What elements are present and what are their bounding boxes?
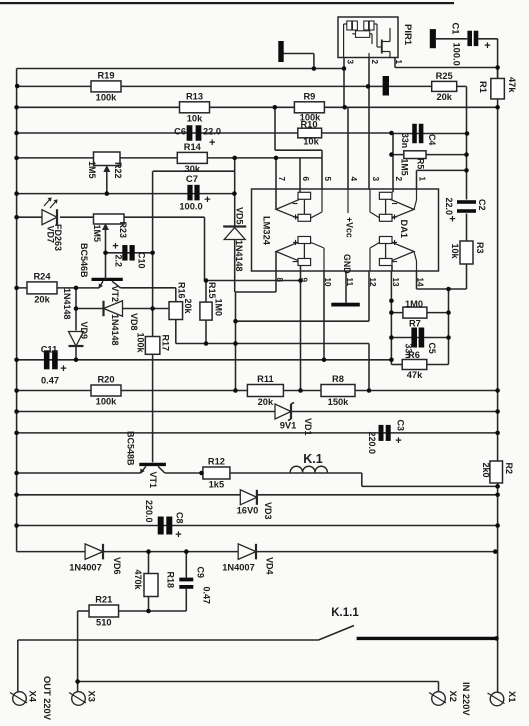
svg-text:22.0: 22.0 — [444, 198, 454, 216]
svg-text:100.0: 100.0 — [452, 43, 462, 66]
svg-text:R9: R9 — [303, 91, 315, 101]
svg-text:20k: 20k — [183, 299, 193, 315]
svg-text:1N4007: 1N4007 — [222, 563, 255, 573]
svg-text:PIR1: PIR1 — [402, 24, 413, 46]
svg-text:R23: R23 — [118, 222, 128, 239]
svg-text:150k: 150k — [328, 397, 350, 407]
svg-text:C6: C6 — [174, 127, 186, 137]
svg-text:+: + — [395, 435, 401, 447]
svg-text:R18: R18 — [166, 572, 176, 589]
svg-text:16V0: 16V0 — [237, 506, 259, 516]
svg-text:20k: 20k — [34, 294, 50, 304]
svg-text:OUT 220V: OUT 220V — [42, 676, 52, 721]
svg-text:100k: 100k — [135, 333, 145, 354]
svg-text:C9: C9 — [196, 567, 206, 579]
svg-text:47k: 47k — [407, 370, 423, 380]
svg-text:+: + — [392, 238, 398, 249]
svg-text:1M5: 1M5 — [400, 159, 410, 176]
svg-text:R15: R15 — [207, 282, 217, 299]
svg-text:22.0: 22.0 — [203, 127, 221, 137]
svg-text:R25: R25 — [436, 71, 453, 81]
svg-text:C11: C11 — [41, 345, 58, 355]
svg-text:R5: R5 — [416, 158, 426, 169]
svg-text:8: 8 — [275, 278, 284, 283]
svg-text:C1: C1 — [451, 23, 461, 35]
svg-text:11: 11 — [345, 278, 354, 287]
svg-text:1N4148: 1N4148 — [110, 314, 120, 346]
svg-text:R13: R13 — [186, 91, 203, 101]
svg-text:R12: R12 — [208, 457, 225, 467]
svg-text:K.1.1: K.1.1 — [331, 607, 359, 619]
svg-text:1N4148: 1N4148 — [234, 240, 244, 272]
svg-text:R19: R19 — [97, 70, 114, 80]
svg-text:+: + — [60, 363, 66, 375]
svg-text:VD4: VD4 — [265, 557, 275, 575]
svg-text:10: 10 — [323, 278, 332, 288]
svg-text:R3: R3 — [475, 242, 485, 254]
svg-text:R20: R20 — [97, 375, 114, 385]
svg-text:47k: 47k — [507, 77, 517, 93]
svg-text:1k5: 1k5 — [209, 480, 225, 490]
svg-text:R14: R14 — [184, 142, 202, 152]
svg-text:X2: X2 — [448, 691, 458, 702]
svg-text:FD263: FD263 — [53, 224, 63, 251]
svg-text:K.1: K.1 — [303, 452, 323, 466]
svg-text:220.0: 220.0 — [144, 500, 154, 523]
svg-text:20k: 20k — [436, 92, 452, 102]
svg-text:+: + — [204, 194, 210, 206]
svg-text:1N4148: 1N4148 — [62, 288, 72, 320]
svg-text:1M5: 1M5 — [92, 225, 102, 243]
svg-text:10k: 10k — [450, 244, 460, 260]
svg-text:9V1: 9V1 — [280, 421, 297, 431]
svg-text:3: 3 — [346, 60, 355, 65]
svg-text:510: 510 — [96, 618, 112, 628]
svg-text:+: + — [484, 40, 490, 52]
svg-text:VD1: VD1 — [303, 418, 313, 436]
svg-text:+: + — [112, 241, 118, 253]
svg-text:DA1: DA1 — [399, 220, 409, 239]
svg-text:LM324: LM324 — [262, 216, 272, 246]
svg-text:12: 12 — [368, 278, 377, 288]
svg-text:100k: 100k — [96, 92, 118, 102]
svg-text:−: − — [392, 199, 398, 210]
svg-text:X1: X1 — [507, 691, 517, 702]
svg-text:C5: C5 — [427, 343, 437, 354]
svg-text:−: − — [292, 257, 298, 268]
svg-text:C10: C10 — [137, 252, 147, 269]
svg-text:R16: R16 — [177, 282, 187, 299]
svg-text:R21: R21 — [95, 595, 112, 605]
svg-text:+: + — [293, 213, 299, 224]
svg-text:5: 5 — [323, 177, 332, 182]
svg-text:VD6: VD6 — [112, 557, 122, 575]
svg-text:−: − — [392, 257, 398, 268]
svg-text:R2: R2 — [504, 463, 514, 475]
svg-text:VD5: VD5 — [235, 207, 245, 225]
svg-text:VT2: VT2 — [110, 286, 120, 303]
svg-text:1N4007: 1N4007 — [69, 563, 102, 573]
svg-text:30k: 30k — [185, 164, 201, 174]
svg-text:6: 6 — [301, 177, 310, 182]
svg-text:+: + — [209, 137, 215, 149]
svg-text:+: + — [449, 214, 455, 226]
svg-text:VD8: VD8 — [129, 313, 139, 331]
svg-text:33n: 33n — [400, 133, 410, 148]
svg-text:R24: R24 — [33, 271, 51, 281]
svg-text:2: 2 — [370, 60, 379, 65]
svg-text:X3: X3 — [87, 691, 97, 702]
svg-text:C4: C4 — [427, 134, 437, 145]
svg-text:R11: R11 — [257, 374, 274, 384]
svg-text:R17: R17 — [161, 335, 171, 352]
svg-text:+: + — [175, 529, 181, 541]
svg-text:1: 1 — [394, 60, 403, 65]
svg-text:+: + — [293, 238, 299, 249]
svg-text:X4: X4 — [28, 691, 38, 703]
svg-text:2: 2 — [394, 177, 403, 182]
svg-text:220.0: 220.0 — [367, 432, 377, 455]
svg-text:2k0: 2k0 — [481, 463, 491, 478]
svg-text:33n: 33n — [404, 344, 414, 359]
svg-text:R22: R22 — [113, 162, 123, 179]
svg-text:BC546B: BC546B — [79, 243, 89, 278]
svg-text:0.47: 0.47 — [41, 376, 59, 386]
svg-text:−: − — [292, 199, 298, 210]
svg-text:3: 3 — [371, 177, 380, 182]
svg-text:1: 1 — [418, 177, 427, 182]
svg-text:+: + — [392, 213, 398, 224]
svg-text:C8: C8 — [175, 512, 185, 524]
svg-text:4: 4 — [349, 177, 358, 182]
svg-text:GND: GND — [342, 254, 352, 274]
svg-text:470k: 470k — [133, 570, 143, 591]
svg-text:14: 14 — [416, 278, 425, 288]
svg-text:R7: R7 — [409, 319, 421, 329]
svg-text:13: 13 — [391, 278, 400, 288]
svg-text:C2: C2 — [477, 199, 487, 211]
svg-text:100k: 100k — [96, 397, 118, 407]
svg-text:C3: C3 — [396, 420, 406, 432]
svg-text:+Vcc: +Vcc — [345, 217, 355, 238]
svg-text:0.47: 0.47 — [202, 587, 212, 605]
svg-text:1M0: 1M0 — [405, 299, 423, 309]
svg-text:2.2: 2.2 — [114, 255, 124, 268]
svg-text:7: 7 — [277, 177, 286, 182]
svg-text:100.0: 100.0 — [179, 202, 202, 212]
svg-text:1M0: 1M0 — [214, 299, 224, 317]
svg-text:10k: 10k — [187, 113, 203, 123]
svg-text:VD9: VD9 — [79, 322, 89, 340]
svg-text:R8: R8 — [332, 374, 344, 384]
svg-text:BC548B: BC548B — [126, 431, 136, 466]
svg-text:10k: 10k — [303, 137, 319, 147]
svg-text:VT1: VT1 — [148, 472, 158, 489]
svg-text:1M5: 1M5 — [87, 161, 97, 179]
svg-text:20k: 20k — [258, 397, 274, 407]
svg-text:VD3: VD3 — [263, 502, 273, 520]
svg-text:R1: R1 — [478, 81, 488, 93]
svg-text:IN 220V: IN 220V — [461, 682, 471, 716]
svg-text:C7: C7 — [186, 174, 198, 185]
